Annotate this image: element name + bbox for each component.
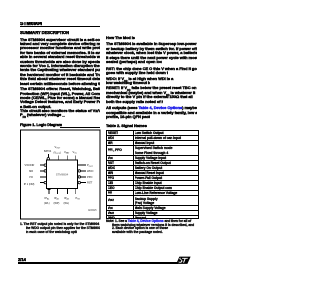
top pin 1 wire (RST OUT, active-low bubble) [47, 154, 49, 160]
figure 1 frame and logic diagram [0, 0, 207, 292]
table notes [106, 219, 196, 223]
left pin 3 label PFI [29, 176, 33, 179]
right pin 4 wire RST OUT [78, 181, 86, 183]
top pin 3 label VBAT [64, 150, 70, 155]
svg-text:(VCC2): (VCC2) [54, 150, 61, 155]
svg-text:PSS: PSS [76, 196, 81, 201]
top pin 4 wire (VCC) [74, 156, 76, 160]
left pin 3 wire PFI [40, 176, 47, 178]
right pin 2 wire WDO [78, 170, 86, 172]
table signal name cells [108, 131, 119, 135]
right pin 3 wire PFO [78, 176, 86, 178]
figure caption [20, 123, 62, 127]
svg-text:WDO: WDO [87, 169, 93, 173]
svg-text:VOUT: VOUT [55, 145, 62, 150]
svg-text:IPA1: IPA1 [45, 196, 50, 201]
left pin 2 wire MR [40, 170, 47, 172]
header part number [20, 22, 42, 26]
header rule [20, 26, 100, 27]
left pin 4 wire CE IN [40, 181, 47, 183]
figure caption rule [60, 126, 100, 129]
table column divider [132, 130, 135, 218]
bottom pin 4 wire GND [74, 189, 76, 195]
right column paragraph D [106, 86, 197, 93]
svg-text:VCC: VCC [73, 150, 78, 155]
bottom pin 4 label GND [76, 196, 81, 201]
svg-text:V/COND: V/COND [24, 164, 34, 167]
right pin 1 label POUT [87, 163, 94, 168]
left column paragraph 1 [20, 38, 100, 42]
left pin 1 label RST (overline) [24, 164, 34, 167]
right column paragraph E with link [106, 106, 197, 110]
top pin 4 label VCC [73, 150, 78, 155]
svg-text:(WL): (WL) [64, 201, 70, 205]
svg-text:(WP): (WP) [54, 201, 60, 205]
svg-text:POUT: POUT [87, 163, 94, 168]
bottom pin 2 label CE2 (WP) [54, 196, 60, 205]
right pin 4 label RST (overline) [87, 181, 93, 185]
footer rule [18, 262, 178, 263]
chip U1 body [47, 160, 78, 189]
svg-text:RST: RST [87, 181, 93, 185]
right column paragraph C [106, 77, 197, 84]
right pin 3 label PFO (overline) [87, 175, 92, 179]
left pin 1 wire RST [40, 164, 47, 166]
svg-text:MR: MR [29, 170, 33, 173]
svg-text:BZT04: BZT04 [44, 150, 52, 153]
bottom pin 1 label CE1 (WL) [44, 196, 50, 205]
svg-text:IP 1 (NM): IP 1 (NM) [24, 183, 35, 186]
svg-text:IPA4: IPA4 [64, 196, 69, 201]
table description cells [135, 131, 198, 135]
table caption [106, 124, 147, 128]
top pin 2 wire (VOUT) [57, 156, 59, 160]
table row separators [106, 134, 199, 137]
svg-text:PFI: PFI [29, 176, 33, 179]
figure frame [21, 130, 101, 219]
right pin 1 wire VOUT [78, 164, 87, 166]
right column heading [106, 36, 135, 40]
bottom pin 1 wire CE1 [48, 189, 51, 195]
svg-text:PFO: PFO [87, 175, 92, 179]
table 2 signal names [106, 130, 199, 218]
bottom pin 3 label CE4 (WL) [64, 196, 70, 205]
left pin 4 label CE (IN) [24, 183, 35, 186]
figure id code [88, 209, 97, 212]
bottom pin 2 wire CE2 [57, 189, 59, 195]
left column paragraph 2 (feature list with bold terms) [20, 87, 100, 91]
figure note line 3 [26, 230, 78, 234]
left pin 2 label MR (overline) [29, 170, 33, 173]
svg-text:(WL): (WL) [44, 201, 50, 205]
left column paragraph 3 [20, 109, 100, 113]
top pin 2 label VOUT / (VCC2) [54, 145, 62, 155]
svg-text:AI06025: AI06025 [88, 209, 97, 212]
svg-text:STM6904: STM6904 [56, 173, 69, 177]
ST logo [176, 256, 191, 265]
top pin 3 wire (VBAT) [67, 156, 69, 160]
right column paragraph A [106, 42, 197, 46]
right pin 2 label WDO (overline) [87, 169, 93, 173]
bottom pin 3 wire CE4 [66, 189, 68, 195]
top pin 1 label BATT ON [44, 150, 52, 153]
svg-text:VBAT: VBAT [64, 150, 70, 155]
section heading SUMMARY DESCRIPTION [20, 31, 69, 35]
right column paragraph B [106, 67, 197, 71]
figure note line 2 [26, 226, 101, 230]
figure note line 1 [20, 222, 100, 226]
footer page number [18, 258, 26, 262]
svg-text:IPA2: IPA2 [54, 196, 59, 201]
